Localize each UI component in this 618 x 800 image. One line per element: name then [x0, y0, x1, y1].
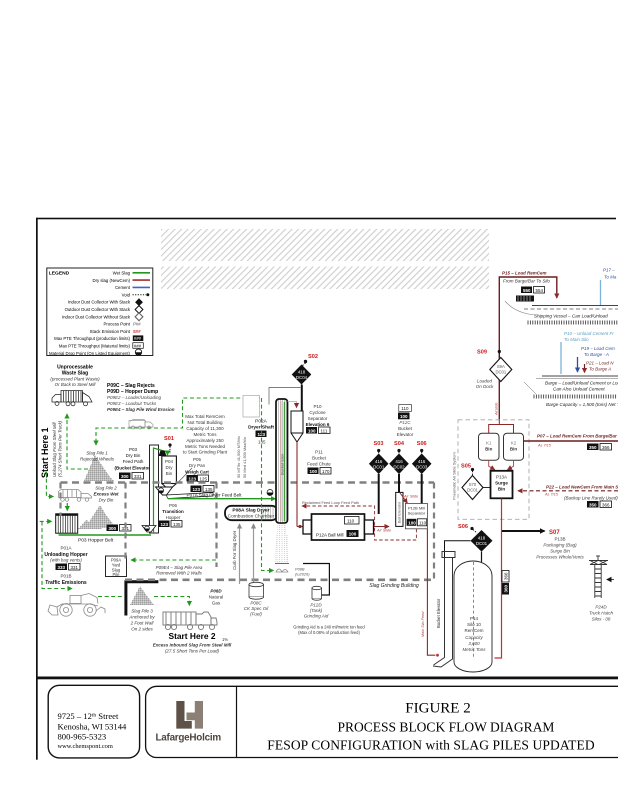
svg-text:Indoor Dust Collector Without: Indoor Dust Collector Without Stack	[62, 314, 131, 319]
P14 main silo	[454, 561, 492, 672]
P06 weigh discharge funnel	[156, 487, 173, 495]
P06 boxes	[159, 521, 170, 528]
svg-text:331: 331	[134, 474, 142, 479]
svg-text:Indoor Dust Collector With Sta: Indoor Dust Collector With Stack	[68, 300, 131, 305]
svg-text:S9A: S9A	[497, 364, 505, 369]
svg-text:P19 – Load Cem: P19 – Load Cem	[581, 346, 615, 351]
K1 bin	[479, 433, 500, 460]
hatched area band 1	[161, 229, 489, 261]
P03 boxes 300 331	[119, 473, 131, 480]
svg-text:100: 100	[308, 428, 316, 433]
wire green arrow truck2 down to grate	[66, 503, 68, 511]
svg-text:P04: P04	[165, 459, 174, 464]
svg-text:(27.5 Short Tons Per Load): (27.5 Short Tons Per Load)	[165, 649, 220, 654]
svg-text:S07: S07	[549, 530, 560, 536]
svg-text:Bucket: Bucket	[398, 426, 413, 431]
dried pile sketch	[276, 569, 288, 572]
svg-text:Traffic Emissions: Traffic Emissions	[45, 580, 87, 586]
svg-text:On Dock: On Dock	[476, 384, 494, 389]
wire green feed belt to dryer shaft	[168, 498, 276, 500]
truck T2 slag haul truck	[59, 490, 92, 502]
svg-text:Bucket Elev: Bucket Elev	[280, 454, 285, 475]
svg-text:Approximately 250: Approximately 250	[186, 438, 224, 443]
svg-text:Grinding Aid: Grinding Aid	[304, 614, 329, 619]
svg-text:K2: K2	[511, 441, 517, 446]
svg-text:Processes Whole/Vents: Processes Whole/Vents	[536, 555, 584, 560]
svg-text:110: 110	[347, 518, 355, 523]
wire black grinding aid connection	[303, 564, 329, 596]
svg-text:DC04: DC04	[296, 375, 308, 380]
slag pile 3	[130, 586, 154, 605]
svg-text:123: 123	[193, 487, 201, 492]
wire green dashed pile3 to truck3	[154, 597, 189, 606]
svg-text:Barge – Load/Unload Cement or: Barge – Load/Unload Cement or Load	[545, 381, 618, 386]
svg-text:(5,274 Short Tons Per Truck): (5,274 Short Tons Per Truck)	[58, 420, 63, 477]
wire green dashed pile1 to truck1	[67, 414, 88, 469]
outdoor dust collector S70 diamond	[462, 476, 483, 500]
wire gray natural gas line	[239, 524, 241, 584]
svg-text:Main Silo Feed: Main Silo Feed	[421, 611, 425, 637]
svg-text:P05: P05	[193, 457, 202, 462]
svg-text:LEGEND: LEGEND	[49, 271, 70, 277]
truck T1 waste slag truck	[52, 391, 92, 406]
svg-text:Or Back to Steel Mill: Or Back to Steel Mill	[55, 382, 97, 387]
svg-text:418: 418	[298, 370, 306, 375]
wire green up elevator	[154, 448, 168, 533]
slag pile 1	[84, 455, 114, 481]
svg-text:P08A Slag Dryer: P08A Slag Dryer	[232, 508, 269, 514]
drawing frame bottom thick line	[36, 677, 618, 680]
svg-text:100: 100	[400, 414, 408, 419]
svg-text:100: 100	[408, 521, 416, 526]
pointer line barge	[524, 382, 536, 394]
P01A boxes 333 331	[56, 564, 68, 571]
svg-text:FESOP CONFIGURATION with SLAG: FESOP CONFIGURATION with SLAG PILES UPDA…	[267, 738, 595, 753]
svg-text:Capacity of 11,300: Capacity of 11,300	[186, 426, 224, 431]
svg-text:Excess Inbound Slag From Steel: Excess Inbound Slag From Steel Mill	[153, 643, 232, 648]
svg-text:Bin: Bin	[485, 447, 493, 452]
P01 unloading grate	[56, 514, 78, 533]
svg-text:Shipping Vessel – Can Load/Unl: Shipping Vessel – Can Load/Unload	[534, 314, 608, 319]
svg-text:S06: S06	[458, 524, 468, 530]
svg-text:Metric Tons Needed: Metric Tons Needed	[185, 444, 225, 449]
svg-text:To Main Silo: To Main Silo	[564, 337, 589, 342]
svg-text:Surge: Surge	[495, 481, 508, 486]
svg-text:S05: S05	[461, 464, 471, 470]
hatched area band 2	[161, 267, 489, 290]
P12C elevator boxes and label	[399, 405, 412, 412]
svg-text:to Start Grinding Plant: to Start Grinding Plant	[183, 450, 228, 455]
svg-text:CK Spec Oil: CK Spec Oil	[244, 606, 270, 611]
svg-text:125: 125	[200, 476, 208, 481]
svg-text:Silo 10: Silo 10	[467, 622, 481, 627]
svg-text:331: 331	[71, 565, 79, 570]
svg-text:50 MT/hr 41,500 MT/Mo: 50 MT/hr 41,500 MT/Mo	[236, 436, 241, 478]
svg-text:As 7/15: As 7/15	[537, 444, 552, 448]
wire maroon cyclone to mill	[296, 442, 298, 527]
wire green dashed reject from spray pile	[262, 398, 274, 571]
svg-text:DC01: DC01	[495, 370, 506, 375]
svg-text:170: 170	[322, 469, 330, 474]
ship pointer line	[505, 301, 535, 315]
P15 boxes 550 554	[521, 287, 532, 294]
svg-text:Truck Hatch: Truck Hatch	[589, 611, 613, 616]
svg-text:P09E3 – Loadout Trucks: P09E3 – Loadout Trucks	[107, 401, 157, 406]
pile3 retaining wall	[126, 582, 158, 616]
svg-text:Bucket Elevator: Bucket Elevator	[436, 598, 441, 628]
svg-text:K1: K1	[486, 441, 492, 446]
svg-text:Start Here 1: Start Here 1	[40, 427, 50, 478]
svg-text:350: 350	[589, 502, 597, 507]
svg-text:Not Total Building: Not Total Building	[188, 420, 223, 425]
wire maroon reclaim loop	[302, 506, 416, 540]
svg-text:###: ###	[134, 343, 142, 348]
max total remcem note	[183, 414, 228, 455]
svg-text:S##: S##	[133, 329, 141, 334]
svg-text:P17 –: P17 –	[603, 268, 615, 273]
svg-text:Surge Bin: Surge Bin	[550, 549, 570, 554]
P03 boxes 300 331 lower	[107, 525, 119, 532]
svg-text:418: 418	[478, 536, 486, 541]
svg-text:To Barge A: To Barge A	[589, 367, 611, 372]
svg-text:P06: P06	[169, 503, 178, 508]
svg-text:100: 100	[349, 532, 357, 537]
svg-text:Dry slag (NewCem): Dry slag (NewCem)	[93, 278, 131, 283]
wire bins to surge bin	[489, 460, 495, 470]
svg-text:S09: S09	[477, 350, 487, 356]
svg-text:Dry Pan: Dry Pan	[189, 463, 206, 468]
svg-text:3,600: 3,600	[468, 641, 480, 646]
svg-text:P21 – Load N: P21 – Load N	[586, 361, 614, 366]
svg-text:P01B: P01B	[60, 574, 71, 579]
svg-text:9725 – 12th Street: 9725 – 12th Street	[58, 711, 119, 721]
P09A yard slag pile box	[106, 556, 127, 577]
svg-text:Elevation 6: Elevation 6	[306, 422, 330, 427]
svg-text:300: 300	[109, 526, 117, 531]
svg-text:Rejected Wheels: Rejected Wheels	[80, 457, 115, 462]
svg-text:Slag Grinding Building: Slag Grinding Building	[369, 583, 419, 589]
wire green dashed to loader	[42, 522, 72, 589]
svg-text:Cyclone: Cyclone	[309, 410, 326, 415]
svg-text:Combustion Chamber: Combustion Chamber	[228, 514, 275, 520]
slag pile 2	[85, 505, 115, 528]
P12C mill bucket elevator	[396, 492, 403, 526]
svg-text:S01: S01	[164, 436, 174, 442]
svg-text:To Ma: To Ma	[604, 275, 617, 280]
svg-text:Elevator: Elevator	[397, 432, 414, 437]
ship water hatching	[528, 321, 617, 325]
svg-text:P##: P##	[133, 322, 141, 327]
svg-text:P07 – Load RemCem From Barge/B: P07 – Load RemCem From Barge/Bar	[537, 434, 617, 439]
svg-text:(Fuel): (Fuel)	[250, 612, 262, 617]
building dashed left edge	[59, 483, 61, 517]
svg-text:Slag Pile 3: Slag Pile 3	[131, 609, 153, 614]
svg-text:(\u2026): (\u2026)	[295, 572, 310, 577]
svg-text:Pile: Pile	[113, 572, 121, 577]
svg-text:Hopper: Hopper	[166, 515, 181, 520]
svg-text:Pneumatic Air Slide System: Pneumatic Air Slide System	[452, 452, 457, 500]
wire pink shaft to cyclone	[288, 402, 297, 407]
wire green dashed loader to pile3	[98, 596, 124, 598]
svg-text:554: 554	[536, 288, 544, 293]
dust collector DC03 diamond	[412, 454, 432, 475]
logo+title rounded box	[146, 686, 618, 757]
svg-text:135: 135	[173, 522, 181, 527]
dock loadout tower	[589, 556, 608, 599]
wire maroon into bins	[489, 420, 514, 433]
slag pile 2b mound	[78, 520, 102, 529]
svg-text:DC01: DC01	[467, 488, 478, 493]
svg-text:416: 416	[418, 459, 426, 464]
svg-text:S04: S04	[394, 441, 405, 447]
svg-text:P03: P03	[129, 447, 138, 452]
ship deck	[532, 305, 618, 307]
svg-text:PROCESS BLOCK FLOW DIAGRAM: PROCESS BLOCK FLOW DIAGRAM	[338, 720, 555, 735]
svg-text:416: 416	[395, 459, 403, 464]
P12B separator box	[405, 503, 427, 528]
wire maroon P21	[584, 364, 586, 373]
svg-text:RemCem: RemCem	[464, 628, 483, 633]
small loader sketch	[129, 420, 153, 430]
svg-text:Dry: Dry	[166, 465, 174, 470]
building dashed wall x216	[215, 483, 217, 568]
svg-text:P15 – Load RemCem: P15 – Load RemCem	[502, 271, 547, 276]
svg-text:Reclaimed Feed Loop Feed Path: Reclaimed Feed Loop Feed Path	[302, 500, 359, 505]
wire thin duct shaft to DC	[269, 388, 301, 405]
svg-text:P13A: P13A	[496, 475, 507, 480]
svg-text:P07A Slag Dryer Feed Belt: P07A Slag Dryer Feed Belt	[187, 493, 243, 498]
bins dashed box	[458, 420, 529, 520]
svg-text:Loaded: Loaded	[477, 379, 493, 384]
svg-text:P22 – Load NewCem From Main Si: P22 – Load NewCem From Main Si	[546, 485, 618, 490]
svg-text:P08C: P08C	[250, 601, 262, 606]
svg-text:S06: S06	[417, 441, 427, 447]
svg-text:(Max of 0.08% of production fe: (Max of 0.08% of production feed)	[298, 630, 360, 635]
svg-text:P09E4 – Slag Pile Wind Erosion: P09E4 – Slag Pile Wind Erosion	[107, 407, 175, 412]
wire blue P17	[600, 280, 602, 305]
P04 dry bin	[162, 456, 177, 484]
shaft bottom funnel	[142, 526, 156, 533]
svg-text:(with bag vents): (with bag vents)	[50, 558, 82, 563]
barge water hatching	[534, 395, 616, 399]
P08C fuel oil tank	[249, 582, 264, 599]
pointer line bin to weigh cart	[176, 468, 192, 484]
svg-text:2 Foot Wall: 2 Foot Wall	[130, 621, 155, 626]
svg-text:S02: S02	[308, 354, 318, 360]
svg-text:P09E4 – Slag Pile Area: P09E4 – Slag Pile Area	[156, 565, 203, 570]
svg-text:Anchored by: Anchored by	[128, 615, 155, 620]
P03 bucket elevator shaft	[150, 445, 159, 533]
P05 boxes	[187, 475, 198, 482]
address rounded box	[48, 685, 139, 758]
svg-text:Metric Tons: Metric Tons	[462, 647, 486, 652]
svg-text:Material Drop Point (On Listed: Material Drop Point (On Listed Equipment…	[49, 351, 131, 356]
wire maroon separator to elevator	[427, 529, 435, 655]
svg-text:Unload Slag From Steel Mill: Unload Slag From Steel Mill	[52, 422, 57, 477]
wire blue P19	[577, 357, 579, 372]
building dashed right edge	[433, 483, 435, 580]
svg-text:Air Slide: Air Slide	[376, 529, 391, 533]
svg-text:###: ###	[134, 336, 142, 341]
svg-text:Process Point: Process Point	[103, 322, 130, 327]
svg-text:(Bucket Elevator): (Bucket Elevator)	[114, 466, 152, 471]
rotated boxes 360 366	[502, 571, 509, 595]
svg-text:Kenosha, WI 53144: Kenosha, WI 53144	[58, 722, 128, 732]
wire green dashed into yard pile box	[131, 559, 216, 561]
building dashed outline bottom	[125, 578, 434, 581]
svg-text:FIGURE 2: FIGURE 2	[405, 701, 470, 717]
svg-text:Ball Elevator: Ball Elevator	[398, 501, 402, 523]
svg-text:Feed Path: Feed Path	[123, 459, 144, 464]
svg-text:366: 366	[602, 445, 610, 450]
svg-text:366: 366	[602, 502, 610, 507]
svg-text:Capacity: Capacity	[465, 635, 483, 640]
svg-text:Separator: Separator	[408, 511, 426, 516]
svg-text:P08D: P08D	[210, 589, 222, 594]
svg-text:Packaging (Bag): Packaging (Bag)	[543, 543, 577, 548]
K2 bin	[504, 433, 524, 460]
svg-text:P12D: P12D	[310, 603, 322, 608]
svg-text:Bucket: Bucket	[312, 456, 327, 461]
S07 vent line	[502, 530, 545, 532]
svg-text:To Barge - A: To Barge - A	[584, 352, 609, 357]
svg-text:366: 366	[504, 572, 509, 580]
P13A surge bin	[491, 471, 513, 499]
svg-text:Weigh Cart: Weigh Cart	[185, 470, 209, 475]
silo bucket elevator	[433, 552, 455, 668]
svg-text:110: 110	[419, 521, 427, 526]
svg-text:(processed Plant Waste): (processed Plant Waste)	[50, 377, 100, 382]
P12A ball mill	[303, 514, 374, 540]
drawing frame left border	[36, 218, 38, 760]
svg-text:123: 123	[161, 522, 169, 527]
P08A slag dryer capsule	[225, 506, 278, 520]
loader sketch	[48, 594, 105, 617]
building dashed outline top	[61, 481, 435, 484]
svg-text:360: 360	[504, 584, 509, 592]
svg-text:S70: S70	[469, 482, 477, 487]
legend box	[47, 268, 153, 356]
svg-text:300: 300	[121, 474, 129, 479]
drawing frame top border	[37, 218, 617, 220]
svg-text:800-965-5323: 800-965-5323	[58, 732, 107, 742]
wire black dc to elevator head	[445, 541, 471, 558]
svg-text:Air Slide: Air Slide	[403, 495, 418, 499]
svg-text:Max PTE Throughput (production: Max PTE Throughput (production limits)	[54, 336, 130, 341]
svg-text:550: 550	[523, 288, 531, 293]
svg-text:Gas: Gas	[212, 601, 221, 606]
svg-text:(Tank): (Tank)	[310, 608, 323, 613]
svg-text:Wet Slag: Wet Slag	[113, 271, 131, 276]
svg-text:Start Here 2: Start Here 2	[168, 631, 215, 641]
svg-text:P11: P11	[315, 450, 323, 455]
dust collector DC02 diamond	[389, 454, 409, 475]
building dashed wall x125	[124, 483, 126, 561]
svg-text:Max PTE Throughput (Material l: Max PTE Throughput (Material limits)	[59, 344, 131, 349]
outdoor dust collector S9A diamond	[490, 358, 512, 382]
svg-text:P01A: P01A	[60, 546, 71, 551]
wire red surge bin to silo	[495, 499, 502, 659]
svg-text:Slag Pile 1: Slag Pile 1	[86, 451, 108, 456]
wire green P03 hopper belt	[59, 534, 151, 536]
spray of dried slag	[275, 523, 288, 563]
P02A dryer shaft head box	[243, 396, 260, 418]
svg-text:Airslide: Airslide	[495, 403, 499, 416]
svg-text:P12A Ball Mill: P12A Ball Mill	[316, 533, 344, 538]
svg-text:Barge Capacity = 1,500 (tons): Barge Capacity = 1,500 (tons) Net To	[546, 402, 618, 407]
svg-text:Natural: Natural	[209, 595, 224, 600]
svg-text:P12C: P12C	[399, 420, 411, 425]
svg-text:350: 350	[589, 445, 597, 450]
svg-text:135: 135	[205, 487, 213, 492]
dust collector DC01 diamond	[369, 454, 389, 475]
svg-text:Bin: Bin	[166, 471, 173, 476]
svg-text:On 2 sides: On 2 sides	[131, 627, 153, 632]
svg-text:Max Total RemCem: Max Total RemCem	[185, 414, 225, 419]
svg-text:Bin: Bin	[510, 447, 518, 452]
svg-text:Dry Bin: Dry Bin	[126, 453, 141, 458]
svg-text:DC01: DC01	[476, 541, 488, 546]
wire gray fuel oil line	[253, 524, 255, 582]
wire green dashed into grate	[40, 520, 52, 522]
dust collector 418 DC01 diamond	[471, 530, 493, 552]
svg-text:Excess Wet: Excess Wet	[94, 492, 119, 497]
svg-text:Silos - 08: Silos - 08	[592, 617, 611, 622]
svg-text:110: 110	[401, 406, 409, 411]
svg-text:Slag Pile 2: Slag Pile 2	[95, 486, 117, 491]
svg-text:50 Med 41,500 Max/Mo: 50 Med 41,500 Max/Mo	[242, 437, 247, 478]
wire DC04 down to cyclone	[301, 385, 303, 434]
svg-text:333: 333	[58, 565, 66, 570]
svg-text:Removed With 2 Walls: Removed With 2 Walls	[156, 571, 202, 576]
barge deck	[542, 375, 618, 377]
wire maroon P15 path	[499, 277, 557, 420]
svg-text:Feed Chute: Feed Chute	[307, 462, 331, 467]
wire green dashed start1 into truck2	[46, 472, 53, 497]
svg-text:416: 416	[375, 459, 383, 464]
svg-text:As 7/15: As 7/15	[544, 493, 559, 497]
dryer exhaust shaft column	[276, 399, 288, 523]
svg-text:100: 100	[310, 469, 318, 474]
svg-text:P13B: P13B	[554, 537, 565, 542]
svg-text:P14: P14	[470, 616, 479, 621]
svg-text:Transition: Transition	[162, 509, 184, 514]
svg-text:Grinding Aid is a 240 ml/metri: Grinding Aid is a 240 ml/metric ton feed	[293, 625, 365, 630]
wire green dashed reject return to pile1	[96, 398, 260, 445]
svg-text:S03: S03	[374, 441, 384, 447]
svg-text:Metric Tons: Metric Tons	[194, 432, 218, 437]
svg-text:DC02: DC02	[393, 464, 405, 469]
svg-text:111: 111	[321, 428, 328, 433]
svg-text:P24D: P24D	[595, 605, 607, 610]
svg-text:Can Also Unload Cement: Can Also Unload Cement	[553, 387, 605, 392]
P04 dry bin hat	[159, 451, 167, 457]
wire maroon elevator to separator	[399, 492, 407, 503]
title block divider	[236, 686, 238, 757]
chute to feed belt	[166, 493, 213, 499]
drop point dots	[160, 490, 162, 492]
svg-text:From Barge/Bar To Silo: From Barge/Bar To Silo	[503, 279, 550, 284]
dust collector DC04 diamond	[292, 365, 312, 385]
svg-text:DC01: DC01	[373, 464, 385, 469]
svg-text:P10 – Unload Cement Fr: P10 – Unload Cement Fr	[564, 331, 614, 336]
svg-text:P03 Hopper Belt: P03 Hopper Belt	[78, 538, 114, 544]
svg-text:LafargeHolcim: LafargeHolcim	[156, 733, 222, 744]
P10 cyclone separator	[291, 411, 303, 442]
svg-text:(Backup Line Rarely Used): (Backup Line Rarely Used)	[564, 496, 618, 501]
svg-text:123: 123	[189, 476, 197, 481]
svg-text:P09E2 – Loader/Unloading: P09E2 – Loader/Unloading	[107, 395, 162, 400]
